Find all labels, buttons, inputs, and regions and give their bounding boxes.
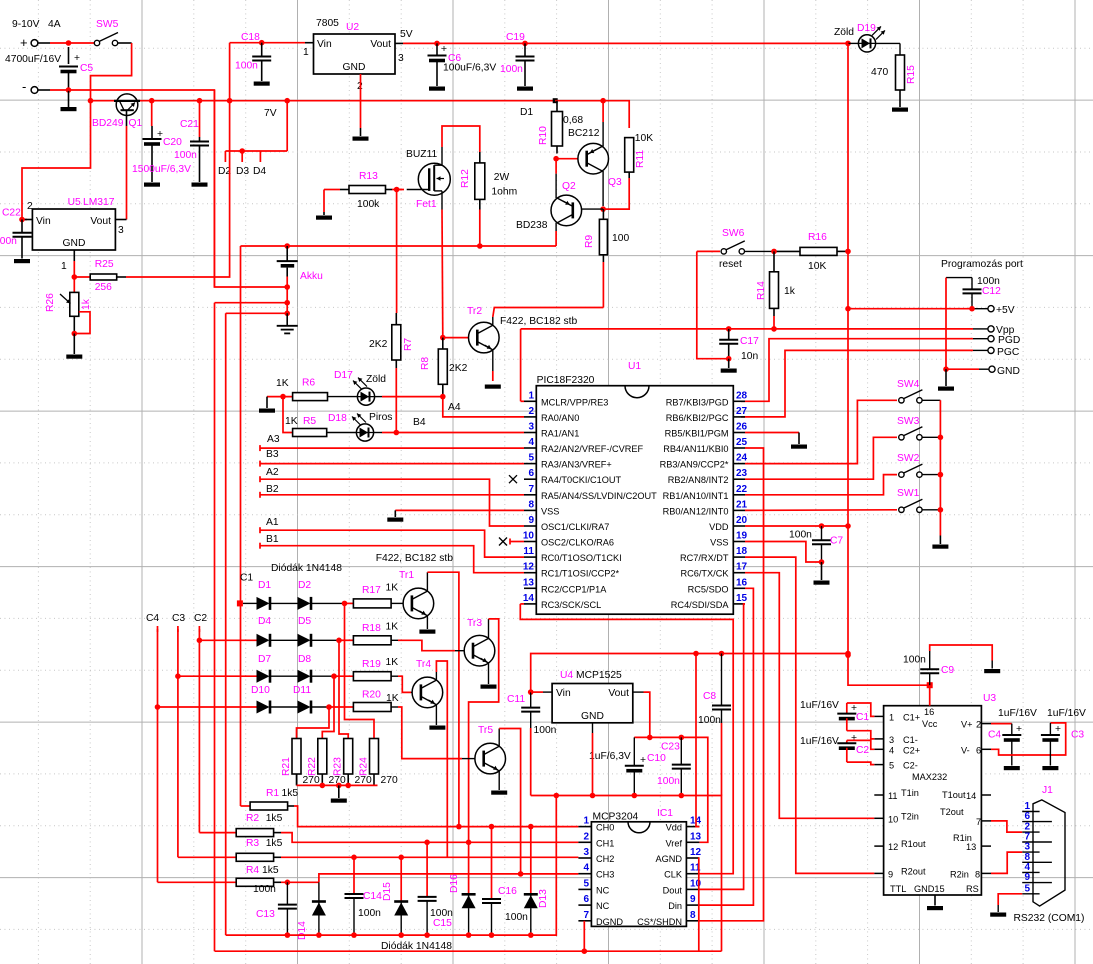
label Piros [369, 412, 392, 423]
svg-text:VSS: VSS [541, 506, 559, 516]
junction Q3 collector [600, 98, 606, 104]
svg-text:D17: D17 [334, 370, 353, 381]
svg-text:4: 4 [583, 863, 589, 874]
x mark pin6 [509, 475, 517, 483]
svg-text:BC212: BC212 [568, 128, 600, 139]
svg-text:Q2: Q2 [562, 181, 576, 192]
x mark pin10 [499, 538, 524, 546]
svg-text:7805: 7805 [316, 18, 339, 29]
junction R14 top [771, 249, 777, 255]
svg-text:BUZ11: BUZ11 [406, 149, 438, 160]
junction D15 bottom [398, 932, 404, 938]
svg-text:C14: C14 [363, 891, 382, 902]
junction D13 bottom [528, 932, 534, 938]
svg-text:RB5/KBI1/PGM: RB5/KBI1/PGM [665, 429, 729, 439]
text input rating 9-10V 4A [12, 19, 61, 30]
svg-text:1: 1 [528, 390, 534, 401]
svg-text:D19: D19 [857, 23, 876, 34]
label D16 [449, 874, 460, 893]
svg-text:Vout: Vout [608, 688, 629, 699]
label 100n C22 [0, 236, 17, 247]
svg-text:1: 1 [583, 816, 589, 827]
svg-text:100n: 100n [534, 725, 557, 736]
led D19 [848, 26, 900, 55]
svg-text:R7: R7 [403, 338, 414, 351]
label TTL [890, 884, 906, 894]
wire battery minus rail3 [226, 312, 288, 314]
capacitor C7 [812, 526, 831, 562]
svg-text:R19: R19 [362, 659, 381, 670]
svg-text:+5V: +5V [996, 305, 1015, 316]
svg-text:6: 6 [528, 468, 534, 479]
svg-text:Akku: Akku [300, 271, 323, 282]
label 1k5 R1 [282, 788, 299, 799]
svg-text:C17: C17 [740, 336, 759, 347]
svg-text:R4: R4 [246, 865, 259, 876]
capacitor C2 [837, 733, 857, 762]
svg-text:R25: R25 [95, 259, 114, 270]
capacitor C1 [837, 703, 857, 731]
svg-text:20: 20 [736, 515, 748, 526]
svg-text:RC6/TX/CK: RC6/TX/CK [681, 569, 730, 579]
svg-text:5: 5 [889, 761, 894, 771]
label C6 [448, 53, 461, 64]
svg-text:R16: R16 [808, 232, 827, 243]
junction row4 column [326, 704, 332, 710]
resistor R8 [438, 338, 447, 397]
svg-text:+: + [640, 755, 646, 766]
capacitor C23 [672, 737, 691, 795]
junction C16 bottom [489, 932, 495, 938]
label C3 [1071, 730, 1084, 741]
label C5 [80, 63, 93, 74]
svg-text:1k5: 1k5 [266, 838, 283, 849]
svg-text:Tr1: Tr1 [399, 570, 414, 581]
capacitor C12 [963, 278, 982, 309]
svg-text:1500uF/6,3V: 1500uF/6,3V [132, 164, 191, 175]
svg-text:C4: C4 [988, 730, 1001, 741]
wire U4 GND [592, 723, 594, 796]
wire Fet1 drain to R12 [442, 126, 480, 163]
label R21 [281, 757, 292, 776]
wire AGND pin12 [698, 858, 701, 951]
resistor R10 [552, 101, 563, 154]
svg-text:24: 24 [736, 453, 748, 464]
svg-text:R9: R9 [584, 235, 595, 248]
capacitor C14 [345, 857, 364, 935]
svg-text:2: 2 [976, 720, 981, 730]
wire pin14 SCK under chip [520, 604, 733, 874]
label C19 [506, 32, 525, 43]
svg-text:Tr5: Tr5 [478, 725, 493, 736]
label 100 [612, 233, 629, 244]
svg-text:11: 11 [888, 791, 898, 801]
svg-text:100n: 100n [253, 884, 276, 895]
junction C17 bottom [726, 356, 732, 362]
svg-text:-: - [22, 79, 26, 94]
svg-text:R20: R20 [362, 690, 381, 701]
resistor R22 [318, 739, 327, 786]
svg-text:1K: 1K [386, 693, 399, 704]
wire row3 to R22 top [322, 676, 334, 738]
wire D2 D3 D4 stubs [225, 98, 290, 162]
label C10 [647, 753, 666, 764]
svg-text:1K: 1K [386, 583, 399, 594]
junction battery minus 1 [284, 284, 290, 290]
svg-text:28: 28 [736, 390, 748, 401]
label 100n C16 [505, 912, 528, 923]
wire +5V analog rail [531, 654, 848, 693]
svg-text:3: 3 [118, 225, 124, 236]
wire pin19 VSS to C7 bottom [745, 542, 822, 563]
svg-text:1ohm: 1ohm [491, 187, 517, 198]
junction SW1 bus [938, 507, 944, 513]
junction C7 bottom [819, 559, 825, 565]
svg-text:RA4/T0CKI/C1OUT: RA4/T0CKI/C1OUT [541, 475, 622, 485]
svg-text:10: 10 [888, 814, 898, 824]
wire R19 to Tr4 base [398, 676, 421, 692]
svg-text:18: 18 [736, 546, 748, 557]
svg-text:R17: R17 [362, 585, 381, 596]
svg-text:2: 2 [583, 831, 589, 842]
potentiometer R26 [60, 277, 90, 334]
svg-text:U2: U2 [346, 22, 359, 33]
plus input terminal [20, 35, 50, 50]
wire Tr2 base [443, 337, 478, 339]
junction plus/C5 [66, 40, 72, 46]
svg-text:Dout: Dout [663, 885, 683, 895]
svg-text:C19: C19 [506, 32, 525, 43]
port GND [989, 366, 1020, 377]
pin 1 U5 [61, 261, 67, 272]
label Diodak 1N4148 bottom [381, 941, 452, 952]
label RS [966, 884, 979, 894]
junction Vdd rail [693, 651, 699, 657]
label U1 [628, 361, 641, 372]
label 1k R26 [81, 298, 92, 310]
label U2 [346, 22, 359, 33]
ground left of R6 [259, 397, 275, 413]
wire SW6 to C17 bottom [697, 251, 729, 358]
wire U2 Vin feed [230, 42, 314, 44]
capacitor C15 [418, 842, 437, 935]
svg-text:C3: C3 [1071, 730, 1084, 741]
junction C12 bottom [969, 306, 975, 312]
svg-text:C10: C10 [647, 753, 666, 764]
wire pin24 to SW4 [745, 400, 897, 463]
svg-text:7: 7 [583, 910, 589, 921]
label C12 [982, 286, 1001, 297]
ground pin26 [791, 433, 807, 449]
label B4 [413, 417, 426, 428]
switch SW5 [94, 33, 118, 46]
svg-text:RC5/SDO: RC5/SDO [688, 584, 729, 594]
label 1uF/16V C2 [800, 736, 839, 747]
svg-text:D16: D16 [449, 874, 460, 893]
svg-text:Vin: Vin [317, 39, 332, 50]
label R15 [906, 65, 917, 84]
junction C17 top [726, 326, 732, 332]
svg-text:4A: 4A [48, 19, 61, 30]
wire SW2 to bus [922, 474, 940, 476]
svg-text:D2: D2 [298, 580, 311, 591]
svg-text:MCLR/VPP/RE3: MCLR/VPP/RE3 [541, 397, 608, 407]
wire D18 to junction [382, 432, 396, 434]
ground under switch bus [932, 536, 948, 549]
capacitor C18 [252, 43, 271, 86]
capacitor C3 [1041, 723, 1061, 770]
wire C9 top to ground [930, 645, 1001, 673]
adc IC1 MCP3204 body [591, 822, 686, 927]
svg-text:GND: GND [997, 366, 1020, 377]
resistor R1 [241, 802, 295, 810]
label 1uF/16V C3 [1047, 708, 1086, 719]
label SW3 [897, 416, 920, 427]
label R26 [45, 293, 56, 312]
wire U2 GND [353, 74, 369, 141]
svg-text:J1: J1 [1042, 785, 1053, 796]
svg-text:9: 9 [528, 515, 534, 526]
label R1 [266, 788, 279, 799]
junction GND port [943, 366, 949, 372]
capacitor C5 [59, 47, 80, 90]
label 1K R19 [386, 657, 399, 668]
diode D15 [394, 857, 408, 935]
svg-text:RA1/AN1: RA1/AN1 [541, 429, 579, 439]
wire DGND pin7 [583, 921, 585, 951]
label MCP1525 [576, 670, 622, 681]
resistor R25 [74, 274, 126, 280]
wire Tr1 collector to CH0 [427, 572, 459, 826]
label R20 [362, 690, 381, 701]
resistor R16 [800, 247, 848, 255]
svg-text:MCP3204: MCP3204 [593, 812, 639, 823]
wire SW6 left [697, 250, 720, 252]
svg-text:C1+: C1+ [903, 712, 920, 722]
label R25 [95, 259, 114, 270]
svg-text:15: 15 [736, 593, 748, 604]
junction C2 row2 [197, 638, 203, 644]
label C9 [941, 665, 954, 676]
label LM317 [83, 197, 115, 208]
svg-text:MCP1525: MCP1525 [576, 670, 622, 681]
svg-text:R15: R15 [906, 65, 917, 84]
diode D2 [298, 597, 312, 610]
wire pin16 SDO to Din [699, 588, 753, 905]
svg-text:1: 1 [61, 261, 67, 272]
svg-text:GND: GND [581, 711, 604, 722]
svg-text:5V: 5V [400, 29, 413, 40]
capacitor C21 [190, 101, 209, 187]
label R3 [246, 838, 259, 849]
connector J1 DB9 shell [1033, 800, 1065, 906]
junction C11/U4 Vin [528, 689, 534, 695]
label 270 R23 [355, 775, 372, 786]
svg-text:470: 470 [871, 67, 888, 78]
junction +5V rail / main [845, 651, 851, 657]
wire battery minus rail2 [215, 287, 288, 313]
wire row1 to R24 top [345, 603, 375, 738]
svg-text:8: 8 [690, 910, 696, 921]
svg-text:AGND: AGND [655, 854, 682, 864]
resistor R14 [770, 251, 779, 329]
svg-text:C2+: C2+ [903, 745, 920, 755]
label 100n C15 [430, 908, 453, 919]
wire row2 to R23 top [339, 640, 348, 738]
capacitor C17 [719, 329, 738, 359]
svg-text:6: 6 [976, 745, 981, 755]
label 470 [871, 67, 888, 78]
junction R25/R26 [72, 274, 78, 280]
label 270 R21 [303, 775, 320, 786]
label 1500uF/6,3V [132, 164, 191, 175]
junction rail ground [336, 783, 342, 789]
label SW4 [897, 379, 920, 390]
svg-text:12: 12 [523, 562, 535, 573]
regulator U5 LM317 [32, 209, 115, 250]
svg-text:1: 1 [303, 47, 309, 58]
junction C7 top [819, 523, 825, 529]
svg-text:100n: 100n [235, 61, 258, 72]
wire J1 pin5 to ground [990, 894, 1022, 917]
wire rail to R11 [555, 101, 629, 128]
label SW1 [897, 488, 920, 499]
wire analog ground rail [226, 796, 557, 936]
label D7 [258, 654, 271, 665]
wire C2 bottom to pin5 [847, 762, 875, 765]
label R8 [420, 357, 431, 370]
label C7 [830, 536, 843, 547]
svg-text:1K: 1K [276, 378, 289, 389]
svg-text:F422, BC182 stb: F422, BC182 stb [500, 316, 578, 327]
svg-text:GND: GND [63, 238, 86, 249]
resistor R12 [475, 163, 485, 246]
port Vpp [988, 325, 1015, 336]
svg-text:C2: C2 [856, 745, 869, 756]
capacitor C13 [278, 882, 297, 935]
label 1k5 R4 [262, 865, 279, 876]
junction D17/R8/A4 [440, 394, 446, 400]
pin 1 U2 [303, 47, 309, 58]
svg-text:Tr3: Tr3 [467, 618, 482, 629]
label 1k R14 [784, 286, 796, 297]
svg-text:1K: 1K [285, 416, 298, 427]
wire C3 column [177, 626, 179, 857]
svg-text:2W: 2W [494, 172, 510, 183]
svg-text:7V: 7V [264, 108, 277, 119]
svg-text:R3: R3 [246, 838, 259, 849]
svg-text:R21: R21 [281, 757, 292, 776]
label C4 [988, 730, 1001, 741]
wire plus terminal to SW5 [50, 42, 94, 44]
label 1uF/16V C4 [998, 708, 1037, 719]
label D8 [298, 654, 311, 665]
pin 3 U5 [118, 225, 124, 236]
label Tr3 [467, 618, 482, 629]
wire R4 line [281, 881, 319, 883]
label D17 [334, 370, 353, 381]
label 10K R16 [808, 261, 826, 272]
svg-text:6: 6 [1024, 811, 1030, 822]
svg-text:Din: Din [668, 901, 682, 911]
svg-text:R1out: R1out [901, 839, 926, 849]
svg-text:U5: U5 [68, 197, 81, 208]
label D1 net [520, 107, 533, 118]
svg-text:CH1: CH1 [596, 838, 614, 848]
junction R10 top [553, 98, 558, 103]
svg-text:PIC18F2320: PIC18F2320 [537, 375, 595, 386]
wire net A1 to pin11 [260, 527, 524, 557]
svg-text:B1: B1 [266, 534, 279, 545]
svg-text:GND15: GND15 [914, 884, 945, 894]
label R19 [362, 659, 381, 670]
wire R25 to 7V rail [126, 43, 230, 277]
wire R20 to Tr5 base [398, 707, 475, 759]
svg-text:9: 9 [888, 869, 893, 879]
svg-text:9: 9 [690, 894, 696, 905]
svg-text:+: + [851, 733, 857, 744]
label 7805 [316, 18, 339, 29]
svg-text:3: 3 [528, 422, 534, 433]
wire DGND left column [214, 303, 216, 952]
wire U5 GND to R25 [73, 250, 75, 277]
wire MCLR Vpp line [521, 329, 988, 401]
svg-text:D18: D18 [328, 413, 347, 424]
svg-text:270: 270 [381, 775, 398, 786]
ground under C7 [814, 562, 830, 585]
svg-text:C11: C11 [507, 694, 525, 705]
wire VSS pin8 [395, 509, 524, 511]
label C23 [661, 742, 680, 753]
svg-text:100n: 100n [500, 64, 523, 75]
svg-text:R18: R18 [362, 623, 381, 634]
resistor R6 [267, 393, 358, 401]
svg-text:VDD: VDD [709, 522, 729, 532]
wire pin20 VDD to +5V [745, 525, 848, 527]
label R12 [460, 169, 471, 188]
svg-text:RS232 (COM1): RS232 (COM1) [1014, 913, 1085, 924]
junction D16/Tr3 [466, 840, 472, 846]
wire net A3 to pin4 [260, 445, 524, 451]
ground under R26 [66, 334, 82, 359]
svg-text:100n: 100n [698, 715, 721, 726]
ground under R2x rail [331, 785, 347, 802]
svg-text:RC4/SDI/SDA: RC4/SDI/SDA [671, 600, 730, 610]
svg-text:A2: A2 [266, 467, 279, 478]
svg-text:C7: C7 [830, 536, 843, 547]
svg-text:A1: A1 [266, 517, 279, 528]
label D14 [297, 921, 308, 940]
pin 2 U5 [27, 201, 33, 212]
svg-text:TTL: TTL [890, 884, 906, 894]
junction 7V rail start [88, 98, 94, 104]
junction C10 bottom [632, 793, 638, 799]
label 270 R22 [329, 775, 346, 786]
svg-text:T2in: T2in [901, 811, 919, 821]
svg-text:RA5/AN4/SS/LVDIN/C2OUT: RA5/AN4/SS/LVDIN/C2OUT [541, 491, 657, 501]
label Fet1 [416, 199, 437, 210]
label Zold [834, 27, 854, 38]
label BD249 [92, 118, 124, 129]
label 2K2 R8 [449, 363, 468, 374]
svg-text:R23: R23 [333, 757, 344, 776]
svg-text:C21: C21 [180, 119, 199, 130]
svg-text:C12: C12 [982, 286, 1001, 297]
wire SW4 to bus [922, 400, 940, 535]
svg-text:C2-: C2- [903, 761, 918, 771]
label GND15 [914, 884, 945, 894]
wire R1 to CH0 [294, 806, 578, 827]
